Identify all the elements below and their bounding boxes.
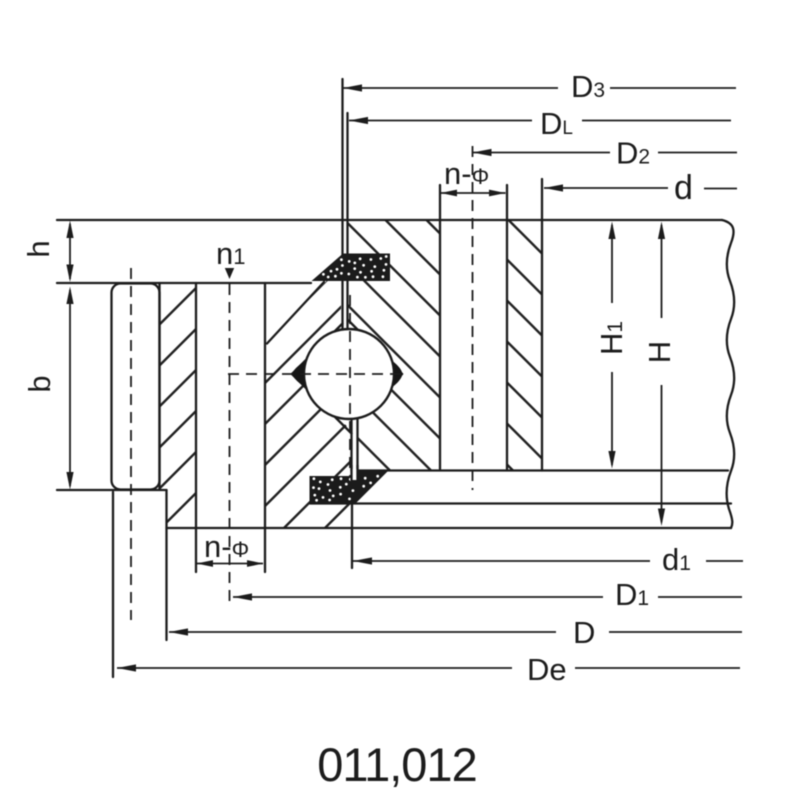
dimension lines: [70, 88, 743, 668]
inner ring left hatched band: [160, 283, 197, 528]
inner ring nose hatched region: [265, 266, 352, 528]
d1 dimension line: [353, 560, 743, 562]
outer ring nose hatched region: [348, 221, 441, 470]
svg-text:d: d: [674, 169, 693, 207]
H1 dimension line: [611, 225, 613, 465]
n-phi bottom arrows: [197, 560, 214, 567]
d arrow: [544, 184, 563, 191]
bottom line: [167, 527, 732, 529]
inner ring step edge / D extension: [165, 490, 167, 640]
race gap channel cutting into bottom seal: [352, 469, 356, 480]
top surface line: [57, 219, 722, 221]
inner bolt hole left wall: [195, 283, 197, 528]
svg-text:De: De: [527, 652, 567, 687]
D dimension line: [169, 631, 742, 633]
De arrow: [117, 664, 136, 671]
lower race gap line left: [350, 420, 352, 471]
white triangle above inner nose face: [264, 284, 322, 344]
support strip mid line: [310, 502, 731, 504]
svg-text:h: h: [21, 240, 56, 257]
ball horizontal centerline: [228, 373, 403, 375]
inner nose face diagonal: [267, 282, 324, 344]
DL arrow: [349, 117, 368, 124]
structural lines: [57, 179, 734, 677]
pocket top-left edge: [292, 324, 343, 375]
ball vertical centerline: [349, 295, 351, 502]
bottom seal: [310, 465, 389, 504]
support strip top line: [357, 469, 728, 471]
n-phi bottom dimension line: [197, 563, 263, 565]
pocket bottom-left edge: [292, 374, 352, 434]
outer ring right hatched band: [507, 220, 542, 470]
inner bolt circle line / D1 extension: [229, 284, 231, 603]
h dimension line: [69, 224, 71, 279]
arrowheads: [66, 84, 665, 671]
DL dimension line: [349, 120, 731, 122]
outer bolt circle line / D2 extension: [472, 146, 474, 490]
ball: [304, 329, 394, 419]
De dimension line: [117, 667, 740, 669]
D3 arrow: [343, 84, 362, 91]
De extension line: [112, 492, 114, 677]
inner ring top line: [57, 282, 311, 284]
svg-text:011,012: 011,012: [317, 738, 476, 791]
lower race gap line right: [356, 417, 358, 471]
D2 arrow: [473, 149, 492, 156]
H dimension line: [661, 225, 663, 522]
pocket top-right edge: [348, 320, 402, 374]
D1 dimension line: [233, 596, 742, 598]
upper race gap line right / DL extension: [346, 113, 348, 330]
inner ring left edge: [158, 283, 160, 490]
outer bolt hole right wall / n-phi extension: [506, 185, 508, 469]
d dimension line: [544, 187, 737, 190]
outer bolt hole left wall / n-phi extension: [439, 185, 441, 469]
H1 arrows: [608, 222, 615, 240]
inner hole n-phi bottom extensions: [195, 528, 197, 572]
upper race gap line left / D3 extension: [341, 79, 343, 330]
H arrows: [658, 222, 665, 240]
h arrows: [66, 221, 73, 239]
D3 dimension line: [343, 87, 736, 89]
d1 extension below seal: [351, 504, 353, 568]
D arrow: [169, 628, 188, 635]
dash-dot center lines: [131, 146, 473, 620]
pocket bottom-right edge: [358, 374, 403, 419]
left contact crescent: [293, 361, 306, 387]
race gap and pocket edges (under ball): [292, 79, 402, 471]
gear tooth rounded box: [112, 284, 160, 490]
d1 arrow: [353, 557, 372, 564]
D2 dimension line: [473, 152, 738, 154]
b arrows: [66, 287, 73, 305]
D1 arrow: [233, 593, 252, 600]
b bottom line: [57, 489, 167, 491]
wavy cut right edge: [722, 220, 734, 528]
right contact crescent: [393, 361, 403, 387]
n1 arrow: [225, 268, 234, 279]
outer ring right edge / d extension: [541, 179, 543, 471]
top seal: [312, 254, 391, 282]
svg-text:b: b: [22, 375, 57, 392]
n-phi top dimension line: [441, 192, 506, 194]
svg-text:D: D: [573, 615, 595, 650]
b dimension line: [69, 290, 71, 486]
gear pitch line: [130, 268, 132, 620]
inner bolt hole right wall: [264, 283, 266, 528]
n-phi top arrows: [441, 190, 458, 197]
svg-text:H: H: [642, 341, 677, 363]
